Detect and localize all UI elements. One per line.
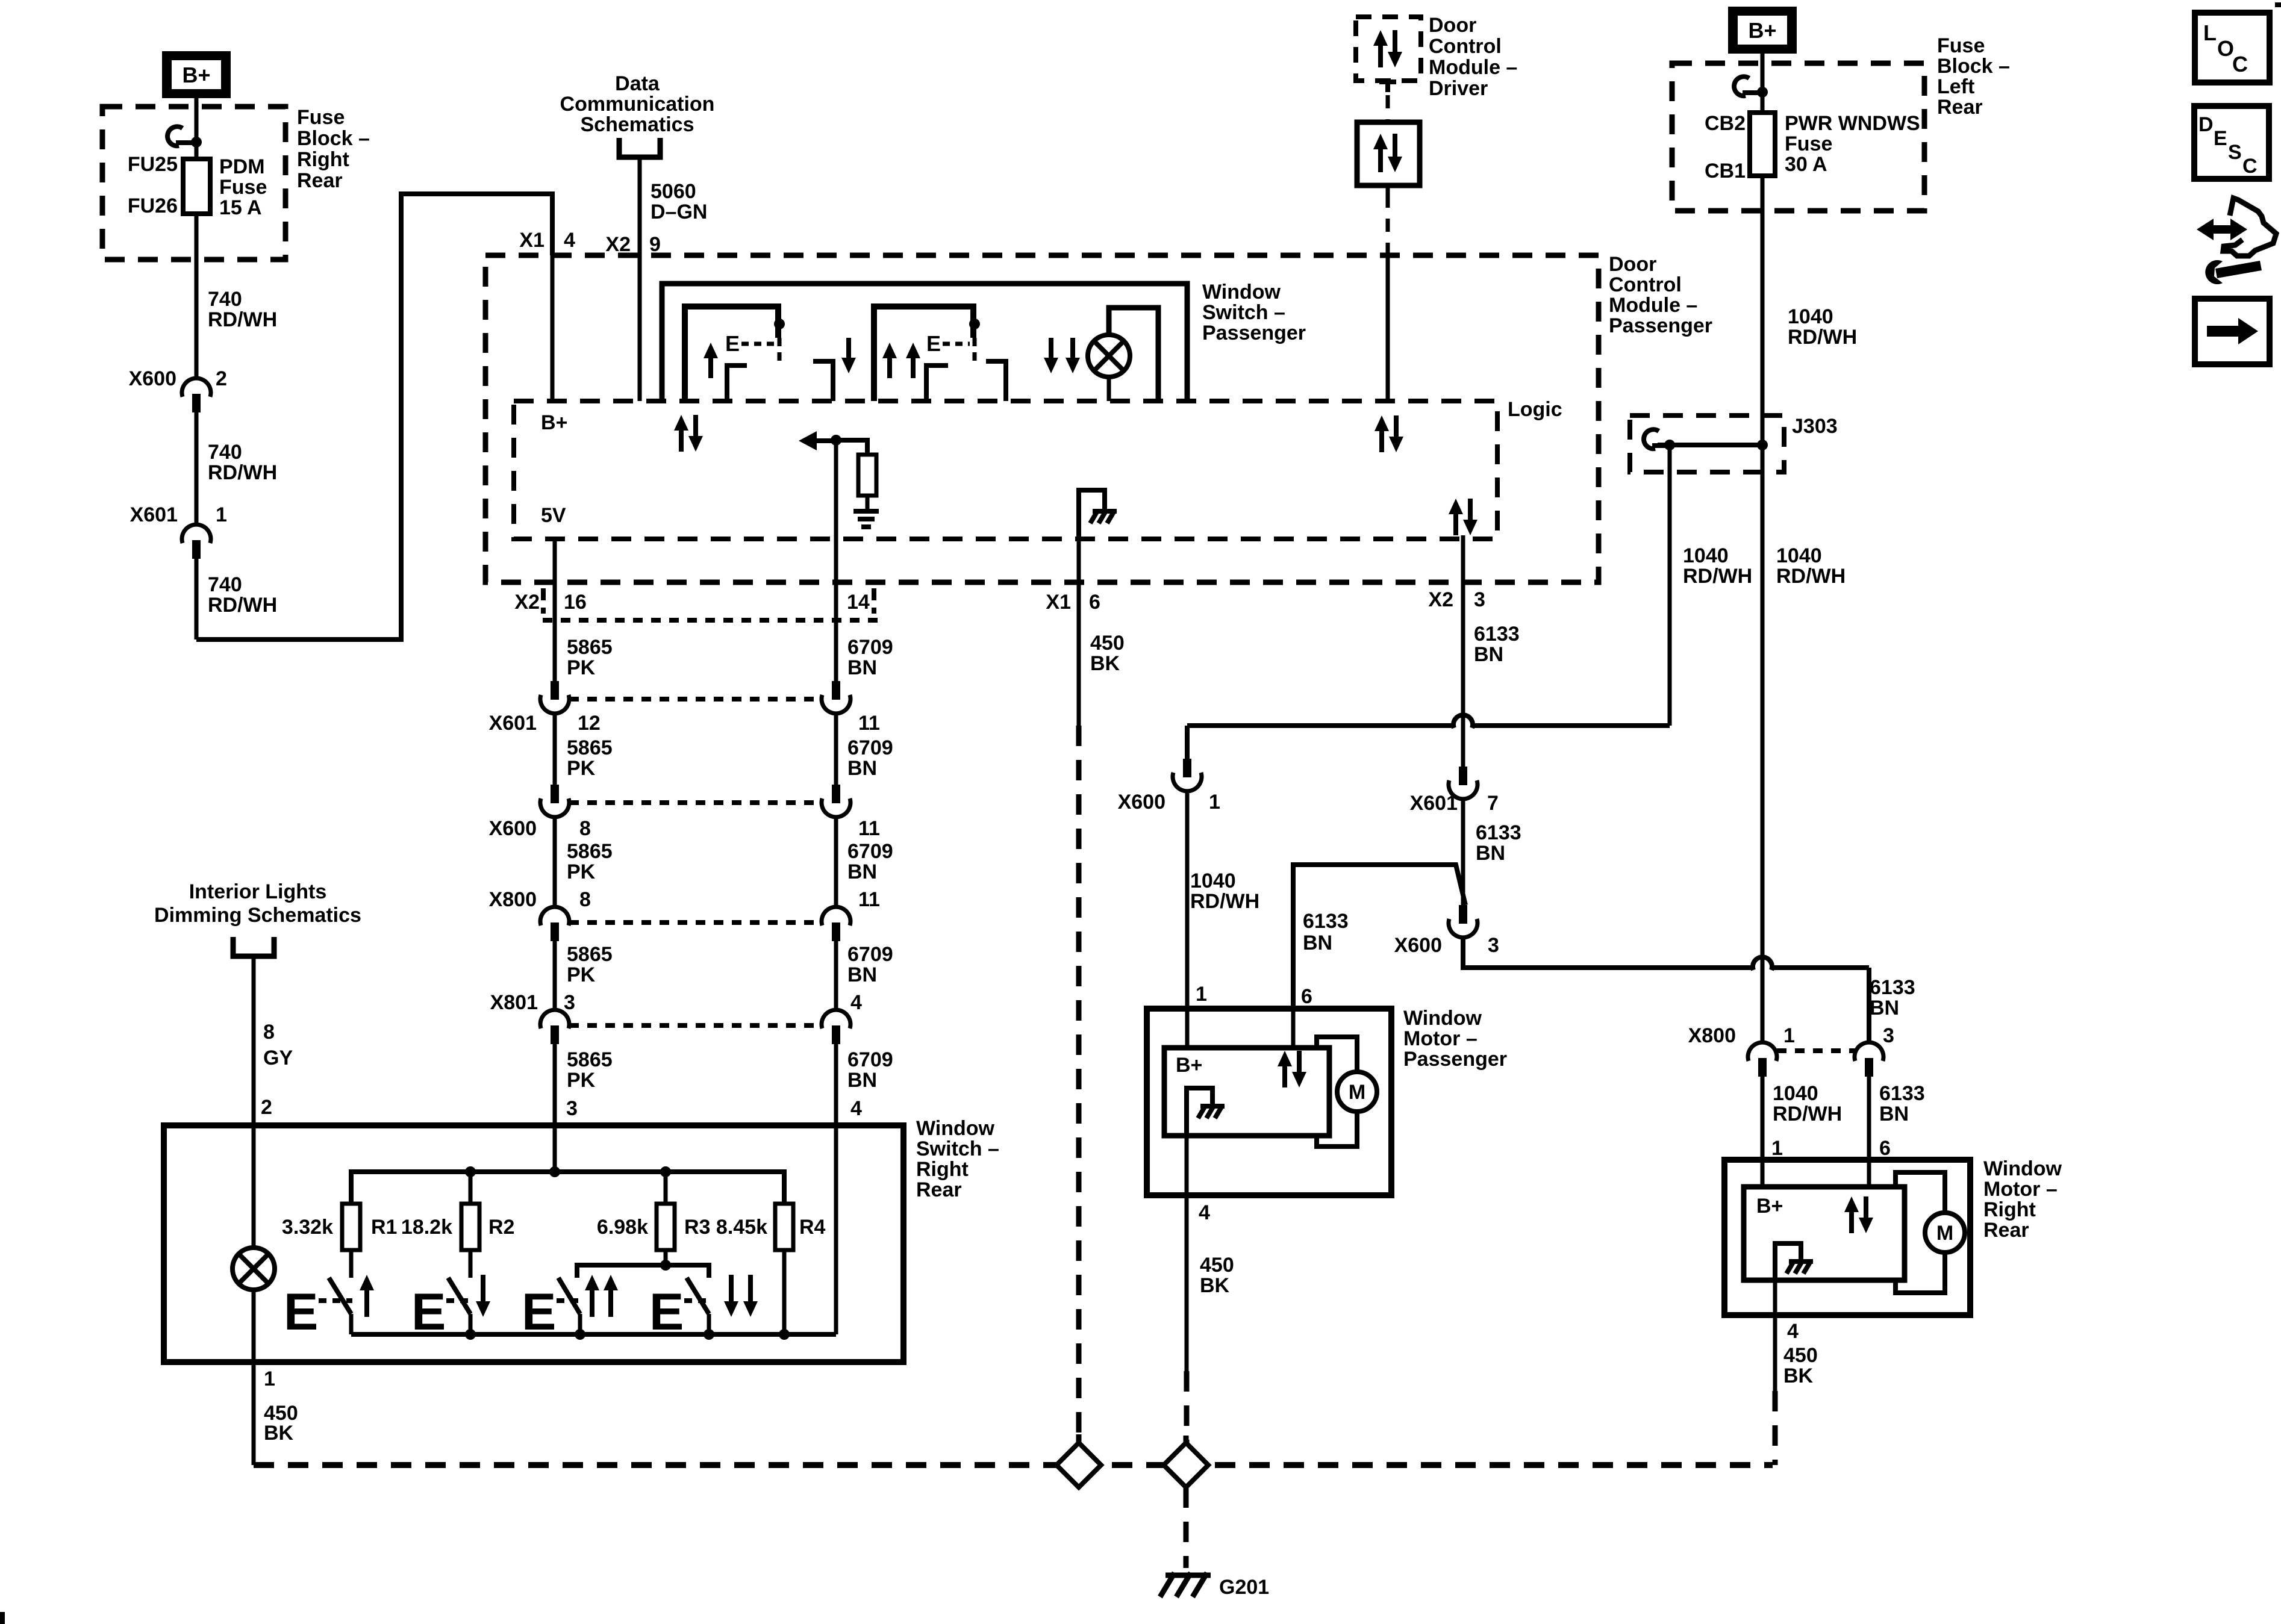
- svg-text:1040: 1040: [1683, 544, 1729, 567]
- svg-text:X600: X600: [489, 817, 537, 840]
- svg-text:14: 14: [847, 591, 870, 614]
- svg-text:12: 12: [578, 712, 601, 735]
- wire 1040 RD/WH main below J303: [1761, 445, 1765, 1042]
- bus bar hook CB2: [1734, 76, 1749, 96]
- connector X2 dashed bottom line: [543, 618, 879, 623]
- wire 1040 RD/WH into motor right rear: [1761, 1077, 1765, 1160]
- window motor right rear outer box: [1724, 1160, 1970, 1315]
- resistor R1 3.32k: [342, 1204, 360, 1250]
- svg-text:3: 3: [1488, 934, 1499, 957]
- svg-text:Rear: Rear: [297, 169, 343, 192]
- svg-text:6133: 6133: [1879, 1082, 1925, 1105]
- wire to pull-up resistor: [836, 440, 867, 455]
- wire 5865 PK segment 2: [553, 713, 557, 785]
- ground G201 hatch symbol: [1165, 1573, 1211, 1578]
- svg-text:RD/WH: RD/WH: [1683, 565, 1752, 588]
- svg-text:3: 3: [566, 1097, 578, 1120]
- svg-text:Data: Data: [615, 72, 660, 95]
- S1 E dashes: [741, 342, 774, 346]
- svg-text:Passenger: Passenger: [1202, 322, 1306, 344]
- wire R4 to bus: [782, 1250, 787, 1334]
- pull-up resistor in logic: [858, 455, 876, 496]
- connector X601 pin 12 inline: [551, 681, 559, 700]
- svg-text:Fuse: Fuse: [1937, 34, 1985, 57]
- wire 6709 down to bus: [834, 1125, 838, 1334]
- svg-text:6709: 6709: [847, 636, 893, 659]
- wire 6709 BN from logic down to X2-14: [834, 539, 838, 681]
- svg-text:BK: BK: [1783, 1364, 1814, 1387]
- svg-text:Control: Control: [1429, 35, 1502, 58]
- bus bar hook FU25: [167, 126, 183, 146]
- svg-text:Window: Window: [1403, 1007, 1482, 1030]
- svg-text:PK: PK: [567, 860, 596, 883]
- svg-text:1: 1: [216, 503, 227, 526]
- svg-text:Window: Window: [1202, 281, 1281, 303]
- svg-text:Passenger: Passenger: [1609, 314, 1712, 337]
- wire driver data into module to logic: [1386, 255, 1390, 401]
- motor M circle loop lower: [1317, 1112, 1357, 1146]
- icon LOC box: [2195, 13, 2270, 82]
- wire - routing elbow to door control module X1-4: [196, 194, 552, 639]
- svg-text:3: 3: [564, 991, 575, 1014]
- svg-text:Switch –: Switch –: [916, 1137, 999, 1160]
- svg-text:X2: X2: [514, 591, 540, 614]
- svg-text:X1: X1: [519, 229, 545, 252]
- window motor passenger inner box: [1164, 1048, 1329, 1136]
- svg-text:RD/WH: RD/WH: [208, 594, 277, 617]
- wire 5865 into resistor bus: [553, 1125, 557, 1172]
- wire R3 to bridge: [664, 1250, 668, 1265]
- svg-text:Fuse: Fuse: [1785, 132, 1832, 155]
- node - S3 contact dot: [969, 319, 980, 329]
- S1 dashed blade (momentary): [778, 338, 782, 361]
- svg-text:X600: X600: [1394, 934, 1442, 957]
- wire pin4 out of right rear motor: [1773, 1280, 1777, 1315]
- svg-text:B+: B+: [541, 411, 567, 434]
- switch S4-express-down wiper elbow: [986, 361, 1006, 401]
- wire 6133 BN below X600-3 elbow right: [1463, 937, 1752, 968]
- wire lamp to pin1: [252, 1290, 256, 1465]
- connector X801 pin 4 inline: [822, 1010, 850, 1028]
- svg-text:L: L: [2203, 20, 2217, 45]
- svg-text:X601: X601: [130, 503, 178, 526]
- crossover hop on branch over X601-7 wire: [1453, 715, 1473, 728]
- svg-text:G201: G201: [1219, 1576, 1269, 1599]
- svg-text:RD/WH: RD/WH: [1776, 565, 1846, 588]
- svg-text:5V: 5V: [541, 504, 566, 527]
- wire 1040 RD/WH below breaker: [1761, 176, 1765, 445]
- wire 740 RD/WH between X600 and X601: [195, 412, 199, 524]
- svg-text:FU26: FU26: [128, 194, 178, 217]
- svg-text:PDM: PDM: [219, 155, 265, 178]
- wire 6133 BN to X600-3: [1461, 798, 1465, 905]
- S2 down arrow: [476, 1275, 490, 1317]
- resistor R2 18.2k: [461, 1204, 479, 1250]
- svg-text:Communication: Communication: [560, 93, 715, 116]
- node - junction at breaker input: [1757, 87, 1768, 98]
- svg-text:C: C: [2232, 52, 2248, 76]
- motor ground branch: [1187, 1088, 1212, 1136]
- wire pin4 ground out of motor: [1185, 1136, 1189, 1195]
- svg-text:4: 4: [850, 991, 862, 1014]
- svg-text:GY: GY: [263, 1047, 293, 1069]
- S4 E dashes: [684, 1298, 710, 1303]
- window switch right rear solid box: [164, 1125, 903, 1362]
- svg-text:BN: BN: [847, 1069, 877, 1092]
- svg-text:1: 1: [1209, 791, 1220, 814]
- window motor right rear inner box: [1744, 1187, 1905, 1280]
- wire 740 RD/WH below fuse: [195, 214, 199, 378]
- S3 up-up arrows: [585, 1275, 599, 1317]
- svg-text:740: 740: [208, 288, 242, 311]
- dashed 450 BK below diamond to G201: [1184, 1487, 1189, 1568]
- page corner tick top right: [2275, 2, 2281, 7]
- chassis ground hatch in logic box: [1093, 509, 1117, 514]
- wire B+ into fuse block left rear: [1761, 54, 1765, 92]
- connector X801 pin 3 inline: [540, 1010, 569, 1028]
- svg-text:B+: B+: [1176, 1054, 1202, 1077]
- svg-text:9: 9: [649, 233, 661, 256]
- svg-text:1040: 1040: [1776, 544, 1822, 567]
- svg-text:450: 450: [1783, 1344, 1818, 1367]
- J303 internal bus wire: [1658, 443, 1762, 447]
- svg-text:2: 2: [216, 367, 227, 390]
- S2 blade to bus: [469, 1314, 473, 1334]
- svg-text:6133: 6133: [1303, 910, 1349, 933]
- power feed B+ symbol top-right: [1728, 7, 1797, 54]
- svg-text:R1: R1: [371, 1216, 397, 1239]
- svg-text:5865: 5865: [567, 1048, 613, 1071]
- ground bus 450 BK dashed: [254, 1462, 1773, 1468]
- svg-text:Dimming Schematics: Dimming Schematics: [154, 904, 361, 927]
- bridge wire over S3/S4: [577, 1265, 709, 1278]
- svg-text:X800: X800: [1688, 1024, 1736, 1047]
- resistor R4 8.45k: [775, 1204, 793, 1250]
- svg-text:2: 2: [261, 1096, 272, 1119]
- svg-text:BN: BN: [1303, 932, 1332, 954]
- svg-text:RD/WH: RD/WH: [1190, 890, 1259, 913]
- S1 blade: [329, 1278, 351, 1314]
- fuse block right rear dashed box: [102, 107, 286, 260]
- wire 6709 BN segment 2: [834, 713, 838, 785]
- svg-text:Window: Window: [1983, 1157, 2062, 1180]
- wire pin1 into inner box: [1185, 1009, 1190, 1048]
- logic ground for X1-6: elbow wire: [1079, 490, 1105, 539]
- chassis ground hatch in right rear motor: [1789, 1259, 1813, 1264]
- node - bus dot R2: [465, 1166, 476, 1177]
- svg-text:B+: B+: [182, 63, 210, 87]
- svg-text:BN: BN: [1870, 997, 1899, 1019]
- svg-text:4: 4: [564, 229, 575, 252]
- svg-text:30 A: 30 A: [1785, 153, 1827, 176]
- wire R1 to switch S1 contact: [349, 1250, 354, 1278]
- motor up/down arrows: [1278, 1051, 1292, 1087]
- svg-text:RD/WH: RD/WH: [208, 461, 277, 484]
- svg-text:Driver: Driver: [1429, 77, 1488, 100]
- svg-text:BN: BN: [847, 656, 877, 679]
- wire 450 BK from logic X1-6: [1077, 539, 1081, 726]
- svg-text:1: 1: [264, 1367, 275, 1390]
- dashed connector line X600 row: [569, 800, 822, 805]
- connector X600 pin 11 inline: [832, 785, 840, 803]
- wire 1040 RD/WH from X600-1 to motor: [1183, 759, 1191, 777]
- svg-text:R3: R3: [684, 1216, 710, 1239]
- window motor passenger outer box: [1147, 1009, 1391, 1195]
- svg-text:Right: Right: [297, 148, 349, 171]
- svg-text:Module –: Module –: [1609, 294, 1697, 317]
- wire 6709 BN segment 5 into switch: [834, 1044, 838, 1125]
- svg-text:X600: X600: [129, 367, 176, 390]
- svg-text:18.2k: 18.2k: [401, 1216, 452, 1239]
- svg-text:BK: BK: [264, 1422, 294, 1445]
- S3 blade: [558, 1278, 580, 1314]
- door control module driver dashed box: [1356, 17, 1421, 81]
- motor M circle loop upper: [1317, 1037, 1357, 1072]
- wire branch elbow to X600-1: [1474, 723, 1670, 728]
- page corner tick bottom left: [0, 1612, 5, 1624]
- svg-text:Fuse: Fuse: [297, 106, 345, 129]
- connector X2 side tick dashes: [541, 588, 546, 614]
- svg-text:Right: Right: [1983, 1198, 2036, 1221]
- svg-text:Fuse: Fuse: [219, 176, 267, 199]
- svg-text:PWR WNDWS: PWR WNDWS: [1785, 112, 1920, 135]
- svg-text:6133: 6133: [1476, 821, 1521, 844]
- switch S3-express-up bracket frame: [874, 306, 973, 401]
- wire pin2 to lamp: [252, 1125, 256, 1248]
- resistor R3 6.98k: [657, 1204, 675, 1250]
- motor right rear ground branch: [1775, 1243, 1801, 1280]
- icon connector body outline: [2223, 198, 2276, 256]
- fuse PDM Fuse 15 A (FU25/FU26): [195, 142, 199, 159]
- svg-text:11: 11: [858, 817, 880, 840]
- S1 up arrow: [360, 1275, 374, 1317]
- svg-text:Switch –: Switch –: [1202, 301, 1285, 324]
- connector X800 pin 11 inline: [822, 907, 850, 926]
- svg-text:CB1: CB1: [1705, 160, 1746, 182]
- S4 blade to bus: [707, 1314, 711, 1334]
- svg-text:BK: BK: [1090, 652, 1120, 675]
- dashed connector line X601 row: [569, 697, 822, 702]
- node - bus dots: [465, 1329, 476, 1340]
- icon right-arrow box: [2195, 299, 2270, 364]
- connector X800 pin 1 inline: [1748, 1042, 1777, 1061]
- svg-text:7: 7: [1487, 792, 1499, 815]
- node - bus dot R3: [660, 1166, 671, 1177]
- connector X600 pin 8 inline: [551, 785, 559, 803]
- svg-text:6: 6: [1879, 1137, 1891, 1160]
- svg-text:8.45k: 8.45k: [716, 1216, 767, 1239]
- power feed B+ (battery) symbol top-left: [162, 51, 231, 98]
- wire R2 to switch S2 contact: [469, 1250, 473, 1278]
- svg-text:Control: Control: [1609, 273, 1682, 296]
- svg-text:Logic: Logic: [1508, 398, 1562, 421]
- svg-text:Window: Window: [916, 1117, 995, 1140]
- svg-text:E: E: [926, 331, 941, 356]
- svg-text:6.98k: 6.98k: [597, 1216, 648, 1239]
- node - junction at fuse input: [191, 137, 202, 148]
- logic signal arrow pointing left: [799, 431, 817, 450]
- driver module off-page T bracket: [1379, 79, 1396, 84]
- S3 blade to bus: [578, 1314, 582, 1334]
- svg-text:Door: Door: [1609, 253, 1656, 276]
- motor right rear M circle: [1925, 1213, 1965, 1252]
- svg-text:BN: BN: [847, 963, 877, 986]
- dashed 450 BK to ground bus diamond: [1184, 1371, 1190, 1443]
- driver module up/down arrows: [1373, 30, 1388, 67]
- dashed link wire below driver module: [1386, 95, 1390, 122]
- svg-text:6133: 6133: [1870, 976, 1915, 999]
- svg-text:5865: 5865: [567, 736, 613, 759]
- node - bus dot feed: [549, 1166, 560, 1177]
- svg-text:RD/WH: RD/WH: [208, 308, 277, 331]
- svg-text:740: 740: [208, 573, 242, 596]
- svg-text:RD/WH: RD/WH: [1788, 326, 1857, 349]
- logic up/down arrows for driver data line: [1375, 415, 1389, 452]
- dashed connector line X801 row: [569, 1023, 822, 1028]
- wire 6709 BN segment 4: [834, 941, 838, 1010]
- wire 5865 PK segment 3: [553, 817, 557, 907]
- dashed connector line X800 motor row: [1777, 1048, 1855, 1053]
- svg-text:15 A: 15 A: [219, 196, 262, 219]
- wire 6133 BN branch to motor pin 6: [1293, 865, 1465, 1009]
- svg-text:B+: B+: [1748, 18, 1776, 43]
- svg-text:J303: J303: [1792, 415, 1838, 438]
- svg-text:3: 3: [1474, 588, 1485, 611]
- S1 E dashes: [319, 1298, 352, 1303]
- svg-text:Door: Door: [1429, 14, 1476, 37]
- svg-text:4: 4: [850, 1097, 862, 1120]
- icon DESC box: [2194, 106, 2269, 179]
- switch bottom bus to pin4 wire: [351, 1332, 836, 1337]
- S2 blade: [448, 1278, 470, 1314]
- svg-text:1040: 1040: [1788, 305, 1833, 328]
- circuit breaker PWR WNDWS 30A: [1761, 92, 1765, 113]
- svg-text:1040: 1040: [1190, 870, 1236, 892]
- connector X800 pin 8 inline: [540, 907, 569, 926]
- svg-text:6709: 6709: [847, 1048, 893, 1071]
- dashed 450 BK elbow to ground bus: [1773, 1391, 1778, 1465]
- S1 blade to bus: [349, 1314, 354, 1334]
- resistor top bus: [351, 1172, 784, 1204]
- wire pin1 into inner box right rear: [1761, 1160, 1765, 1187]
- wire 6709 from logic down to pin 14: [834, 440, 838, 539]
- svg-text:8: 8: [263, 1021, 275, 1044]
- wire X2-3 from logic to X601-7: [1461, 539, 1465, 767]
- svg-text:BN: BN: [1474, 643, 1503, 666]
- svg-text:740: 740: [208, 441, 242, 464]
- connector X601 pin 1 inline connector: [182, 524, 211, 543]
- wire 6709 BN segment 3: [834, 817, 838, 907]
- motor M circle: [1337, 1072, 1377, 1112]
- svg-text:PK: PK: [567, 757, 596, 780]
- node - bridge dot under R3: [660, 1260, 671, 1271]
- svg-text:6: 6: [1301, 985, 1312, 1008]
- svg-text:Rear: Rear: [1937, 96, 1983, 119]
- S4 blade: [687, 1278, 709, 1314]
- svg-text:1: 1: [1771, 1137, 1783, 1160]
- svg-text:5865: 5865: [567, 943, 613, 966]
- svg-text:X601: X601: [489, 712, 537, 735]
- motor right rear up/down arrows: [1844, 1196, 1859, 1233]
- motor right rear M loop lower: [1896, 1252, 1945, 1293]
- svg-text:6: 6: [1089, 591, 1100, 614]
- node - J303 splice dot right on main feed: [1757, 440, 1768, 450]
- backlight lamp bracket: [1109, 308, 1158, 401]
- S3 E dashes: [557, 1298, 582, 1303]
- svg-text:Motor –: Motor –: [1983, 1178, 2058, 1201]
- svg-text:E: E: [725, 331, 740, 356]
- dashed 450 BK down to ground bus: [1076, 726, 1082, 1443]
- svg-text:X2: X2: [605, 233, 631, 256]
- S2 E dashes: [446, 1298, 472, 1303]
- wire J303 branch down: [1668, 445, 1672, 726]
- node - S1 contact dot: [774, 319, 785, 329]
- svg-text:Block –: Block –: [1937, 55, 2010, 78]
- wire 740 RD/WH third segment: [195, 559, 199, 639]
- splice pack J303 dashed box: [1630, 415, 1784, 472]
- logic up/down arrows under S1 leg: [674, 415, 688, 452]
- icon wrench: [2215, 261, 2262, 278]
- svg-text:E: E: [2214, 127, 2227, 150]
- crossover hop over 1040 main feed: [1753, 957, 1772, 970]
- svg-text:8: 8: [579, 817, 591, 840]
- backlight lamp symbol: [1088, 335, 1130, 377]
- J303 bus hook: [1644, 429, 1659, 449]
- svg-text:6709: 6709: [847, 943, 893, 966]
- svg-text:R4: R4: [799, 1216, 826, 1239]
- ground (3-bar) under resistor: [853, 509, 879, 514]
- wire 6133 BN into motor right rear: [1867, 1077, 1871, 1160]
- svg-text:Motor –: Motor –: [1403, 1027, 1478, 1050]
- svg-text:BN: BN: [1879, 1103, 1909, 1125]
- S4 down-down arrows: [1044, 338, 1058, 373]
- wire - B+ to fuse block: [195, 98, 199, 142]
- svg-text:16: 16: [564, 591, 587, 614]
- S1 up arrow: [704, 343, 718, 378]
- connector X601 pin 7 inline: [1459, 767, 1467, 785]
- svg-text:CB2: CB2: [1705, 112, 1746, 135]
- splice diamond on ground bus (right): [1164, 1443, 1208, 1487]
- svg-text:Right: Right: [916, 1158, 969, 1181]
- wire 5865 PK segment 4: [553, 941, 557, 1010]
- svg-text:11: 11: [858, 712, 880, 735]
- svg-text:C: C: [2242, 155, 2258, 178]
- S4 down-down arrows: [724, 1275, 738, 1317]
- wire resistor to ground: [866, 496, 870, 510]
- svg-text:Module –: Module –: [1429, 56, 1517, 79]
- connector X800 pin 3 inline: [1855, 1042, 1883, 1061]
- svg-text:BN: BN: [847, 757, 877, 780]
- svg-text:1040: 1040: [1773, 1082, 1818, 1105]
- svg-text:1: 1: [1196, 983, 1207, 1006]
- wire 5865 PK segment 5: [553, 1044, 557, 1125]
- svg-text:D–GN: D–GN: [651, 201, 707, 223]
- svg-text:Rear: Rear: [916, 1178, 962, 1201]
- svg-text:8: 8: [579, 888, 591, 911]
- svg-text:M: M: [1936, 1222, 1953, 1245]
- svg-text:6709: 6709: [847, 840, 893, 863]
- wire - X1-4 entering module down to logic B+: [551, 255, 555, 401]
- S3 up-up arrows: [882, 343, 897, 378]
- svg-text:1: 1: [1783, 1024, 1795, 1047]
- stub above left diamond: [1076, 1434, 1082, 1443]
- svg-text:Rear: Rear: [1983, 1219, 2029, 1242]
- svg-text:5865: 5865: [567, 840, 613, 863]
- logic dashed box inside module: [514, 401, 1497, 539]
- logic up/down arrows at X2-3 output: [1449, 499, 1463, 535]
- dashed link wire to DCM passenger: [1386, 194, 1390, 255]
- S1 wiper elbow: [727, 366, 747, 401]
